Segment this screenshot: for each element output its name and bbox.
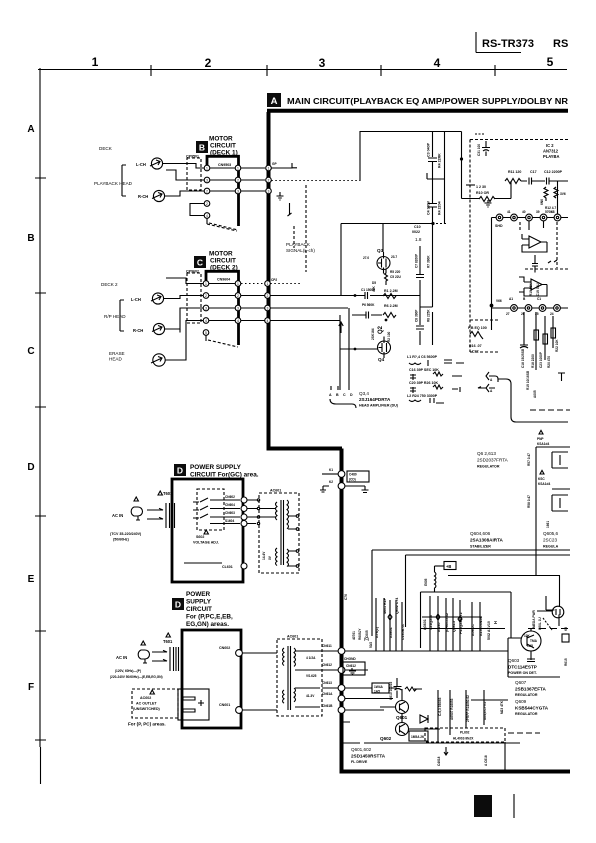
junction dot q4: [354, 348, 357, 351]
block D1 outline: [172, 479, 243, 582]
long wire y555: [406, 555, 571, 627]
svg-text:Q3,4: Q3,4: [359, 391, 369, 396]
svg-text:MAIN CIRCUIT(PLAYBACK EQ AMP/P: MAIN CIRCUIT(PLAYBACK EQ AMP/POWER SUPPL…: [287, 97, 568, 106]
svg-text:(120V, 60Hz)—(P): (120V, 60Hz)—(P): [115, 669, 141, 673]
svg-text:CN602: CN602: [225, 495, 235, 499]
svg-text:R16 .07: R16 .07: [469, 344, 482, 348]
svg-text:R1 2.2M: R1 2.2M: [384, 289, 398, 293]
svg-text:E605: E605: [424, 578, 428, 586]
svg-text:S1604: S1604: [225, 519, 234, 523]
wire staircase from playback L: [360, 132, 511, 199]
rp head L terminal: [152, 293, 163, 304]
svg-text:2SD2037FRTA: 2SD2037FRTA: [477, 458, 509, 463]
AC plug symbol D2: [138, 650, 149, 663]
svg-text:3: 3: [237, 189, 239, 193]
wire stubs from border lower: [343, 722, 360, 743]
cap C17: [521, 178, 537, 185]
wire mesh bottom right: [471, 699, 508, 701]
cap symbol on rail lower: [428, 204, 437, 208]
ground boxed symbol: [343, 662, 365, 675]
svg-text:2: 2: [267, 294, 269, 298]
svg-text:AC602: AC602: [140, 696, 151, 700]
svg-text:L-CH: L-CH: [131, 297, 141, 302]
svg-text:IC 2: IC 2: [546, 143, 554, 148]
svg-text:CN603: CN603: [225, 511, 235, 515]
svg-text:C-6,3 350/63: C-6,3 350/63: [438, 697, 442, 716]
off page connector A right: [486, 372, 498, 382]
svg-text:SUPPLY: SUPPLY: [186, 599, 212, 606]
svg-text:SIGNAL(L-ch): SIGNAL(L-ch): [286, 248, 315, 253]
capacitor C31: [482, 141, 490, 156]
tee symbol right: [558, 373, 565, 381]
svg-text:2SC23: 2SC23: [543, 538, 557, 543]
stub above IC2 box: [475, 133, 485, 135]
thick bus y592: [421, 591, 512, 593]
small box 1M5A: [409, 731, 428, 741]
junction dot V66: [490, 304, 494, 308]
svg-text:R5 220: R5 220: [390, 270, 401, 274]
section marker B (black box): [196, 141, 208, 153]
arrows into transformer D2: [152, 650, 167, 661]
vertical pair A-D bus: [340, 308, 349, 390]
diamond junctions on columns: [388, 614, 462, 622]
section marker D2 (black box): [172, 598, 184, 610]
wires bottom right area: [364, 690, 520, 755]
transformer marker D2: [166, 633, 170, 637]
pin row 1 connector circles: [496, 214, 503, 221]
svg-text:EG,GN) areas.: EG,GN) areas.: [186, 621, 229, 628]
playback head R terminal: [153, 190, 164, 201]
svg-text:A: A: [271, 96, 278, 107]
wire loop pin2: [166, 170, 204, 180]
opamp U1b loop: [519, 277, 547, 296]
wire bus y223: [341, 224, 433, 297]
AC601b taps to border: [295, 651, 338, 707]
connector CP9602 dashed box: [187, 273, 201, 323]
thick dashed stub right of PL602: [508, 732, 540, 734]
wire A down corridor: [498, 379, 568, 422]
stub from small transistor: [546, 596, 559, 626]
svg-text:CIRCUIT: CIRCUIT: [210, 258, 236, 265]
svg-text:A76(1): A76(1): [375, 626, 379, 638]
thick rail vertical x536: [535, 447, 537, 575]
svg-text:CHGND: CHGND: [344, 657, 356, 661]
resistor R11 zigzag: [505, 179, 521, 184]
junction dots y296: [354, 294, 357, 297]
svg-text:A6507 R16053: A6507 R16053: [450, 698, 454, 720]
svg-text:ERASE: ERASE: [109, 351, 125, 356]
svg-text:40761: 40761: [352, 631, 356, 640]
svg-text:C20 39P R26 10K: C20 39P R26 10K: [409, 381, 439, 385]
block C outline dashed bottom: [208, 340, 238, 347]
dash-dot continuation y223: [436, 223, 448, 225]
svg-text:C3 040P: C3 040P: [427, 142, 431, 157]
op-amp U1a: [522, 236, 547, 248]
svg-text:FL DRIVE: FL DRIVE: [351, 760, 368, 764]
svg-text:C18 15/25SB: C18 15/25SB: [521, 348, 525, 368]
svg-text:A1: A1: [509, 297, 513, 301]
svg-text:CN9503: CN9503: [218, 163, 231, 167]
edge pins D1: [241, 497, 247, 503]
svg-text:4: 4: [267, 319, 269, 323]
svg-text:C22: C22: [472, 350, 479, 354]
svg-text:1: 1: [92, 55, 99, 69]
dashed bottom right: [530, 409, 570, 411]
section marker A (black box): [267, 93, 281, 107]
svg-text:C610 100/16: C610 100/16: [389, 682, 393, 700]
IC2 dashed box left: [470, 140, 500, 353]
wire into pin row 1: [492, 218, 569, 306]
wire q3 collector up: [382, 223, 384, 252]
dashed horizontal y269: [525, 268, 568, 270]
svg-text:KSA1d4: KSA1d4: [538, 482, 550, 486]
svg-text:C16 39P SEC 10K: C16 39P SEC 10K: [409, 368, 439, 372]
svg-text:V66: V66: [496, 299, 502, 303]
svg-text:POWER ON DET.: POWER ON DET.: [508, 671, 537, 675]
svg-text:AC601: AC601: [287, 635, 298, 639]
svg-text:CP9602: CP9602: [186, 269, 199, 273]
svg-text:C19 33U: C19 33U: [536, 283, 540, 296]
svg-text:CN612: CN612: [322, 663, 332, 667]
svg-text:AC OUTLET: AC OUTLET: [136, 702, 157, 706]
svg-text:DECK 2: DECK 2: [101, 282, 118, 287]
cap right of border pin: [345, 486, 369, 493]
wire C18 drop: [520, 312, 528, 348]
svg-text:L-CH: L-CH: [136, 162, 146, 167]
AC601 left edge pin dots: [257, 499, 259, 501]
svg-text:Q36L3: Q36L3: [452, 621, 456, 632]
main circuit block border jog: [267, 447, 343, 451]
svg-text:A: A: [329, 393, 332, 397]
border pins F row: [338, 648, 345, 655]
IC2 dashed box top: [470, 139, 568, 141]
svg-text:R19 10/16SB: R19 10/16SB: [526, 370, 530, 390]
wires D1 pins to AC601: [247, 509, 275, 518]
ground symbol near B block: [277, 192, 284, 200]
thin horizontal y617: [422, 616, 482, 618]
svg-text:KSC: KSC: [538, 477, 545, 481]
svg-text:C4 380V: C4 380V: [427, 200, 431, 215]
svg-text:C: C: [197, 258, 203, 268]
main border pins row C: [265, 281, 271, 287]
svg-text:B: B: [27, 233, 34, 244]
cap C12: [536, 178, 561, 185]
svg-text:(C): (C): [364, 637, 370, 641]
model number box RS-TR373: [476, 32, 521, 53]
svg-text:F: F: [28, 682, 34, 693]
block D2 outline: [182, 630, 241, 728]
squiggle marks above dashed: [548, 260, 557, 263]
svg-text:B: B: [199, 143, 205, 153]
svg-text:1.8: 1.8: [415, 237, 422, 242]
svg-text:R7 390K: R7 390K: [427, 255, 431, 268]
svg-text:R-CH: R-CH: [138, 194, 148, 199]
PB EQ row4 components: [409, 398, 444, 403]
wire loop opamp: [522, 234, 547, 252]
AC601b primary windings: [283, 648, 285, 703]
svg-text:CP9501: CP9501: [186, 154, 199, 158]
svg-text:R58 0.47: R58 0.47: [527, 495, 531, 508]
svg-text:CN61A: CN61A: [322, 692, 333, 696]
outlet slots: [183, 697, 195, 712]
transistor Q601: [396, 701, 409, 714]
right coupling column C7: [416, 246, 424, 345]
svg-text:AC IN: AC IN: [116, 655, 127, 660]
plug triangle marker: [134, 497, 138, 501]
svg-text:DECK: DECK: [99, 146, 113, 151]
svg-text:R20 470: R20 470: [547, 356, 551, 368]
dashed box right mid: [528, 628, 570, 630]
svg-text:U160B7A: U160B7A: [401, 624, 405, 640]
svg-text:D: D: [175, 600, 181, 610]
svg-text:T601: T601: [163, 491, 173, 496]
svg-text:Q604,606: Q604,606: [470, 531, 491, 536]
arrow up symbol: [339, 322, 343, 333]
svg-text:AN7312: AN7312: [543, 149, 559, 154]
R6 zigzag: [383, 313, 396, 318]
rp head bracket: [120, 300, 124, 331]
small transistor circle top: [552, 606, 564, 618]
thick rail stub mid: [552, 488, 570, 490]
svg-text:R/P HEAD: R/P HEAD: [104, 314, 126, 319]
dash-dot wire playback L: [271, 180, 360, 182]
dashed vertical playback signal: [305, 185, 307, 272]
svg-text:RS: RS: [553, 38, 568, 50]
svg-text:C5 22U: C5 22U: [390, 275, 402, 279]
dash-dot wire right of C pin1: [270, 283, 300, 285]
thick vertical x420: [420, 592, 422, 648]
svg-text:C76: C76: [344, 594, 348, 600]
svg-text:VS.625: VS.625: [306, 674, 317, 678]
svg-text:A 160: A 160: [437, 623, 441, 632]
thick bus corner down to transistor: [559, 576, 561, 607]
main circuit block border left lower: [340, 449, 344, 772]
wire into pin row 2: [492, 307, 569, 309]
component columns right group: [430, 596, 480, 651]
svg-text:2SA1308AIRTA: 2SA1308AIRTA: [470, 538, 504, 543]
svg-text:2: 2: [206, 202, 208, 206]
svg-text:3: 3: [206, 178, 208, 182]
svg-text:AC601: AC601: [270, 489, 281, 493]
svg-text:4601 R1P: 4601 R1P: [383, 597, 387, 614]
svg-text:1661: 1661: [546, 521, 550, 528]
svg-text:4: 4: [237, 319, 239, 323]
svg-text:CL601: CL601: [222, 565, 233, 569]
svg-text:M23 4TK: M23 4TK: [500, 700, 504, 714]
svg-text:41.3V: 41.3V: [306, 694, 315, 698]
svg-text:H: H: [493, 621, 498, 624]
long wire y550: [372, 550, 570, 636]
svg-text:R10 OR: R10 OR: [476, 191, 489, 195]
svg-text:DTC114ESTP: DTC114ESTP: [508, 665, 537, 670]
selector switch contacts: [193, 498, 208, 518]
wires D2 pins to AC601b: [243, 653, 278, 710]
svg-text:RS-TR373: RS-TR373: [482, 38, 534, 50]
svg-text:10K: 10K: [524, 634, 531, 638]
svg-text:2: 2: [237, 178, 239, 182]
svg-text:REGULA: REGULA: [543, 545, 559, 549]
AC601 core: [281, 500, 284, 565]
svg-text:3: 3: [267, 306, 269, 310]
svg-text:CN613: CN613: [322, 681, 332, 685]
svg-text:Q601,602: Q601,602: [351, 747, 372, 752]
svg-text:REGULATOR: REGULATOR: [477, 465, 500, 469]
svg-text:C1 1500P: C1 1500P: [361, 288, 376, 292]
svg-text:2PRPP R14050.62: 2PRPP R14050.62: [466, 695, 470, 722]
frame tick marks left: [35, 178, 46, 740]
PB EQ row3 components: [410, 385, 460, 393]
svg-text:C4618: C4618: [437, 756, 441, 766]
svg-text:(CD): (CD): [349, 478, 356, 482]
svg-text:24: 24: [550, 312, 554, 316]
wire pin C5 down: [205, 335, 207, 341]
svg-text:K2: K2: [329, 480, 333, 484]
wire y296 with cap C1: [271, 292, 399, 299]
svg-text:3: 3: [319, 56, 326, 70]
svg-text:CN611: CN611: [322, 644, 332, 648]
wires to main border pins C: [241, 283, 265, 285]
transistor Q602: [396, 723, 409, 736]
svg-text:3V6: 3V6: [560, 192, 566, 196]
svg-text:50/2 A1V10: 50/2 A1V10: [487, 621, 491, 640]
connector pins CP9501 column: [204, 165, 210, 171]
svg-text:2: 2: [205, 56, 212, 70]
svg-text:T601: T601: [163, 639, 173, 644]
thick bus y628: [421, 628, 506, 630]
svg-text:C10: C10: [414, 225, 421, 229]
svg-text:2SK184: 2SK184: [371, 328, 375, 340]
dashed vertical x557: [556, 222, 558, 268]
svg-text:3: 3: [205, 306, 207, 310]
frame tick marks top: [151, 65, 495, 76]
svg-text:S21Q250: S21Q250: [429, 615, 433, 630]
wire into Q601: [380, 689, 402, 722]
svg-text:A C618: A C618: [484, 755, 488, 766]
component columns left group: [376, 598, 402, 651]
KSA transistor label mid: [540, 470, 544, 474]
small box C480: [347, 471, 369, 482]
svg-text:C60L 1U: C60L 1U: [538, 617, 542, 630]
PB EQ row1 components: [409, 360, 464, 366]
svg-text:1: 1: [205, 282, 207, 286]
main circuit block border bottom: [340, 770, 571, 774]
svg-text:50/2: 50/2: [369, 642, 373, 648]
wire pin4 pin5 loop: [190, 204, 204, 216]
transistor Q4: [378, 341, 391, 354]
svg-text:Q4: Q4: [378, 357, 385, 362]
svg-text:KSA1d4: KSA1d4: [537, 442, 549, 446]
jog near corner: [466, 184, 475, 186]
svg-text:2: 2: [206, 189, 208, 193]
resistor boxes cluster: [534, 330, 539, 340]
wires selector to edge pins: [210, 500, 240, 524]
svg-text:1: 1: [237, 166, 239, 170]
svg-text:AC IN: AC IN: [112, 513, 123, 518]
svg-text:POWER: POWER: [186, 591, 211, 598]
AC601 secondary windings: [287, 500, 289, 567]
svg-text:A06CC: A06CC: [471, 624, 475, 636]
svg-text:R4 22RK: R4 22RK: [438, 153, 442, 168]
svg-text:2SJ164PDRTA: 2SJ164PDRTA: [359, 397, 391, 402]
svg-text:D5: D5: [372, 281, 376, 285]
svg-text:3: 3: [268, 189, 270, 193]
selector marker: [204, 530, 208, 534]
svg-text:C31 100: C31 100: [477, 144, 481, 156]
small boxes right of rail: [552, 452, 568, 468]
AC601b core: [288, 646, 291, 710]
rp head R terminal: [153, 323, 164, 334]
svg-text:D: D: [27, 462, 34, 473]
wire bottom from border CN611: [345, 650, 508, 652]
svg-text:23.7: 23.7: [391, 255, 397, 259]
svg-text:41: 41: [507, 210, 511, 214]
svg-text:CIRCUIT For(GC) area.: CIRCUIT For(GC) area.: [190, 472, 259, 479]
svg-text:Q6 2,613: Q6 2,613: [477, 451, 496, 456]
svg-text:A005: A005: [533, 390, 537, 398]
svg-text:R605JY: R605JY: [358, 628, 362, 640]
svg-text:CP2: CP2: [271, 278, 277, 282]
section marker C (black box): [194, 256, 206, 268]
wire from border pin up stub: [271, 163, 297, 168]
svg-text:REGULATOR: REGULATOR: [515, 693, 538, 697]
svg-text:POWER SUPPLY: POWER SUPPLY: [190, 464, 242, 471]
stub right of B block: [288, 203, 292, 216]
svg-text:C480: C480: [349, 473, 357, 477]
wire L head to pin C2: [164, 296, 203, 299]
block C outline: [206, 271, 239, 345]
svg-text:6N6: 6N6: [540, 199, 544, 205]
svg-text:2SD1450RSTTA: 2SD1450RSTTA: [351, 754, 386, 759]
svg-text:MEGA PWR: MEGA PWR: [532, 610, 536, 628]
AC601 primary windings: [276, 502, 278, 566]
svg-text:C23 1000P: C23 1000P: [539, 351, 543, 368]
svg-text:SHD: SHD: [495, 224, 503, 228]
wire R head to pin3: [165, 191, 204, 196]
supply rail verticals C4/R4: [433, 132, 445, 225]
wire erase up branch: [179, 329, 181, 333]
arrows into transformer: [147, 508, 163, 519]
resistor R10 zigzag: [479, 197, 495, 202]
pin CN601: [236, 707, 243, 714]
svg-text:HL4002-9NJX: HL4002-9NJX: [453, 737, 474, 741]
svg-text:D: D: [350, 393, 353, 397]
svg-text:R2 100: R2 100: [387, 331, 391, 342]
svg-text:R-CH: R-CH: [133, 328, 143, 333]
svg-text:40: 40: [522, 210, 526, 214]
inductor L601: [435, 566, 437, 592]
svg-text:P.B EQ 100: P.B EQ 100: [468, 326, 487, 330]
KSA transistor label top: [539, 430, 543, 434]
svg-text:L1 R?,4 C6 5600P: L1 R?,4 C6 5600P: [407, 355, 438, 359]
svg-text:(TCV 35-220/240V): (TCV 35-220/240V): [110, 532, 142, 536]
svg-text:1 2 30: 1 2 30: [476, 185, 486, 189]
svg-text:R4 2204: R4 2204: [438, 201, 442, 215]
wires bottom mesh: [345, 670, 397, 710]
svg-text:C8 390P: C8 390P: [415, 309, 419, 322]
small box 1W4A: [372, 683, 389, 693]
svg-text:1: 1: [267, 282, 269, 286]
cap C610: [394, 678, 402, 698]
block B outline: [207, 156, 239, 226]
svg-text:R57 0.47: R57 0.47: [527, 453, 531, 466]
svg-text:S602: S602: [196, 535, 204, 539]
wire dot drop: [491, 306, 493, 331]
dashed diagonal near transistor: [543, 618, 552, 630]
black locator square: [474, 795, 492, 817]
svg-text:1: 1: [206, 166, 208, 170]
wire L head to pin1: [163, 164, 204, 169]
dashed horizontal y320: [470, 319, 500, 321]
